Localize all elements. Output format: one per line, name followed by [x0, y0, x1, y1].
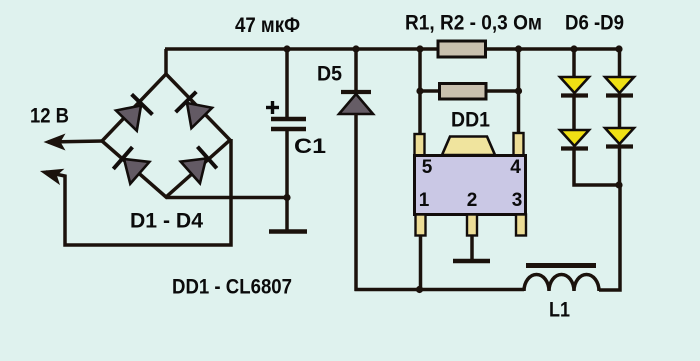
svg-text:1: 1 [419, 190, 430, 211]
node D5 top [352, 45, 359, 52]
svg-text:L1: L1 [549, 298, 570, 322]
svg-text:DD1: DD1 [451, 108, 490, 132]
node R1 right [515, 45, 522, 52]
wire LED left bottom [574, 150, 620, 185]
label + C1 polarity [266, 101, 279, 114]
wire LED right bottom [618, 148, 622, 186]
svg-text:4: 4 [510, 157, 521, 178]
svg-text:2: 2 [467, 190, 478, 211]
wire LED right mid [618, 97, 622, 129]
node R2 left [416, 87, 423, 94]
diode D4 [181, 147, 217, 184]
wire AC input top [48, 141, 103, 142]
node LED left top [570, 45, 577, 52]
wire bottom rail [355, 288, 525, 292]
svg-text:47 мкФ: 47 мкФ [235, 13, 300, 37]
op-amp U1 pin3 bottom lead [516, 215, 526, 236]
op-amp U1 tab [442, 137, 495, 156]
op-amp U1 body DD1 [415, 156, 526, 215]
ground pin2 [453, 259, 490, 264]
resistor R2 [440, 84, 487, 100]
wire R2 right stub [485, 89, 519, 93]
LED D8 [605, 77, 634, 96]
wire R left vertical [418, 49, 422, 138]
wire top rail [165, 47, 620, 51]
node pin1 bottom [416, 286, 423, 293]
op-amp U1 pin2 bottom lead [467, 215, 477, 236]
node R1 left [416, 45, 423, 52]
wire bridge bottom to C1 [166, 196, 287, 200]
wire LED left column top [572, 49, 576, 78]
svg-text:3: 3 [512, 190, 523, 211]
inductor L1 [524, 275, 599, 292]
svg-text:DD1 - CL6807: DD1 - CL6807 [172, 275, 292, 299]
svg-text:D1 - D4: D1 - D4 [130, 209, 203, 233]
op-amp U1 pin5 top lead [415, 134, 425, 156]
node LED join [615, 181, 622, 188]
resistor R1 [438, 41, 486, 57]
node R2 right [515, 87, 522, 94]
op-amp U1 pin1 bottom lead [416, 215, 426, 236]
diode D1 [116, 94, 152, 130]
inductor L1 core [526, 263, 596, 268]
wire R2 left stub [420, 89, 440, 93]
svg-text:D6 -D9: D6 -D9 [565, 11, 624, 35]
wire LED right column top [618, 49, 622, 78]
wire pin1 down [419, 236, 423, 289]
diode D3 [113, 147, 149, 184]
arrow input top [44, 134, 66, 151]
capacitor C1 [271, 49, 306, 230]
arrow input bottom [38, 163, 65, 185]
LED D9 [605, 128, 634, 147]
wire LED left mid [572, 97, 576, 131]
wire bridge top stem [164, 49, 168, 75]
svg-text:5: 5 [422, 157, 433, 178]
svg-text:D5: D5 [317, 62, 342, 86]
wire pin2 down [470, 236, 474, 259]
svg-text:12 В: 12 В [30, 104, 69, 128]
diode D2 [176, 92, 212, 128]
wire AC input bottom [46, 139, 231, 245]
diode D5 [339, 49, 373, 291]
ground C1 [269, 229, 307, 234]
wire bridge diamond [102, 74, 230, 197]
LED D6 [560, 77, 589, 96]
wire L1 right to vertical [599, 184, 620, 290]
LED D7 [560, 130, 589, 149]
wire R right vertical [517, 49, 521, 138]
node LED right top [615, 45, 622, 52]
op-amp U1 pin4 top lead [514, 133, 524, 156]
svg-text:R1, R2 - 0,3 Ом: R1, R2 - 0,3 Ом [405, 11, 542, 35]
node C1 top [283, 45, 290, 52]
svg-text:C1: C1 [294, 134, 326, 158]
node C1 bottom [283, 194, 290, 201]
